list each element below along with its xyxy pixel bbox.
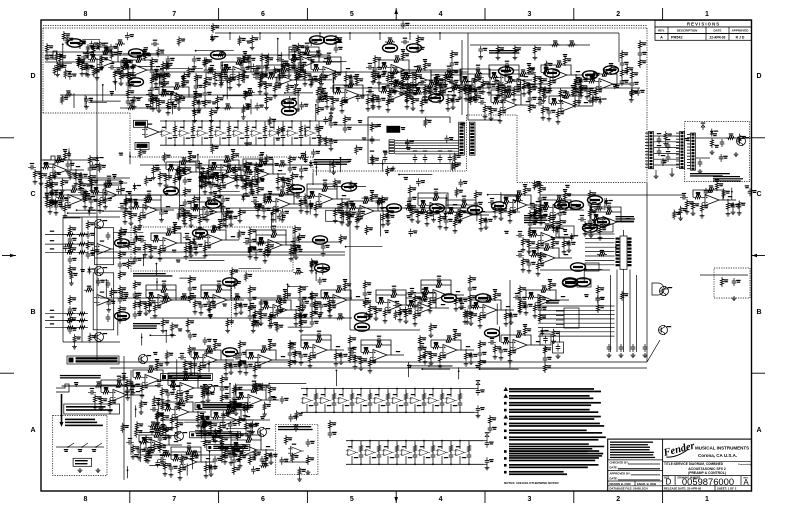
value label [390, 75, 394, 78]
wire [406, 304, 411, 306]
ground [731, 210, 736, 215]
value label [154, 77, 158, 80]
resistor R5 [245, 124, 248, 134]
resistor R119 [574, 76, 577, 86]
junction [727, 199, 729, 201]
wire [342, 198, 350, 200]
wire [423, 389, 425, 393]
resistor R232 [68, 265, 71, 275]
resistor R97 [420, 98, 423, 108]
resistor R63 [266, 76, 276, 79]
value label [730, 203, 734, 206]
ground [331, 106, 336, 111]
value label [310, 293, 314, 294]
value label [624, 52, 628, 55]
ground [74, 182, 79, 187]
wire [91, 180, 105, 185]
svg-text:3: 3 [527, 496, 531, 503]
resistor R315 [493, 291, 496, 301]
capacitor C168 [194, 242, 199, 250]
capacitor C187 [298, 295, 303, 303]
value label [374, 194, 378, 197]
resistor R70 [311, 68, 321, 71]
value label [125, 65, 129, 68]
resistor R277 [208, 303, 211, 313]
wire [459, 441, 461, 449]
zone tick top [662, 8, 664, 20]
wire [333, 408, 335, 413]
value label [327, 57, 331, 60]
net label [299, 200, 303, 201]
value label [302, 70, 306, 73]
op-amp U33 [342, 90, 362, 101]
wire [655, 170, 657, 174]
value label [198, 244, 202, 247]
ground [381, 223, 386, 228]
transistor Q2 [660, 286, 669, 296]
bundle wire [623, 270, 625, 353]
value label [99, 67, 103, 70]
value label [276, 138, 280, 139]
wire [610, 74, 617, 84]
ground [48, 210, 53, 215]
resistor R131 [638, 40, 641, 50]
value label [72, 297, 76, 300]
wire [279, 235, 286, 245]
refdes label [375, 394, 379, 395]
ground [485, 465, 490, 470]
svg-text:DRAWN B. ODR: DRAWN B. ODR [610, 482, 631, 486]
value label [624, 62, 628, 65]
resistor R208 [541, 206, 551, 209]
resistor R233 [86, 220, 89, 230]
svg-text:RELEASE DATE: 22-APR-93: RELEASE DATE: 22-APR-93 [664, 486, 702, 490]
capacitor C1 [173, 133, 178, 141]
ground [509, 320, 514, 325]
wire [526, 290, 539, 297]
resistor R196 [438, 214, 441, 224]
resistor R117 [563, 56, 566, 66]
svg-text:C: C [30, 191, 35, 198]
wire [151, 233, 164, 240]
value label [405, 53, 409, 56]
ground [438, 225, 443, 230]
resistor R94 [411, 96, 414, 106]
value label [277, 85, 281, 88]
wire [450, 404, 452, 412]
value label [248, 183, 252, 186]
capacitor C59 [150, 67, 155, 75]
svg-text:D: D [756, 73, 761, 80]
value label [526, 83, 530, 86]
wire [476, 214, 481, 216]
svg-text:8: 8 [83, 496, 87, 503]
refdes label [161, 292, 165, 293]
phones socket dashed box [53, 415, 107, 475]
value label [379, 298, 383, 301]
wire [351, 456, 353, 464]
value label [213, 184, 217, 187]
resistor R34 [700, 203, 703, 213]
capacitor C53 [731, 202, 736, 210]
resistor R231 [68, 245, 71, 255]
resistor R180 [348, 207, 358, 210]
value label [409, 96, 413, 99]
svg-text:Corona, CA U.S.A.: Corona, CA U.S.A. [698, 453, 737, 458]
wire [564, 65, 571, 75]
resistor R172 [256, 203, 259, 213]
zone tick top [218, 8, 220, 20]
capacitor C186 [299, 312, 304, 320]
junction [309, 120, 311, 122]
ground [138, 310, 143, 315]
value label [192, 295, 196, 298]
net label [504, 197, 508, 200]
value label [142, 215, 146, 218]
net label [414, 66, 418, 67]
resistor R17 [440, 392, 443, 402]
resistor R45 [161, 61, 164, 71]
resistor R192 [410, 207, 413, 217]
op-amp U15 [373, 397, 385, 404]
wire [489, 70, 502, 77]
refdes label [174, 89, 178, 90]
resistor R270 [138, 299, 141, 309]
op-amp U58 [265, 240, 285, 251]
value label [248, 162, 252, 165]
capacitor C73 [298, 67, 306, 72]
net label [492, 72, 496, 75]
value label [137, 258, 141, 261]
op-amp U46 [316, 194, 336, 205]
refdes label [100, 292, 104, 293]
wire [110, 47, 118, 52]
refdes label [348, 446, 352, 447]
wire [512, 70, 519, 80]
wire [342, 404, 344, 412]
value label [257, 311, 261, 314]
refdes label [668, 287, 672, 288]
ground [259, 321, 264, 326]
capacitor C184 [248, 313, 253, 321]
capacitor C65 [204, 67, 209, 75]
footswitch dashed box [685, 122, 750, 182]
value label [83, 174, 87, 177]
capacitor C18 [422, 400, 427, 408]
wire [378, 460, 380, 465]
ground [203, 254, 208, 259]
wire [369, 389, 371, 393]
refdes label [708, 192, 712, 193]
svg-text:DESCRIPTION: DESCRIPTION [677, 29, 698, 33]
svg-text:A: A [660, 36, 663, 40]
wire [241, 179, 246, 181]
op-amp U17 [409, 397, 421, 404]
resistor R29 [693, 196, 703, 199]
value label [472, 287, 476, 290]
capacitor C180 [188, 295, 196, 300]
wire [423, 408, 425, 413]
resistor R179 [340, 200, 343, 210]
capacitor C188 [298, 313, 303, 321]
wire [191, 202, 204, 209]
resistor R78 [346, 83, 356, 86]
resistor R312 [484, 298, 494, 301]
resistor R27 [710, 138, 713, 148]
value label [412, 187, 416, 190]
capacitor C120 [183, 199, 188, 207]
bus wire bottom [95, 361, 647, 363]
node balloon VR7 [429, 94, 444, 102]
svg-text:ACOUSTASONIC SFX 2: ACOUSTASONIC SFX 2 [688, 467, 726, 471]
net label [336, 87, 340, 90]
capacitor C43 [661, 158, 666, 166]
net label [173, 222, 177, 225]
refdes label [429, 394, 433, 395]
wire [387, 441, 389, 449]
capacitor C132 [444, 217, 449, 225]
value label [329, 96, 333, 99]
value label [122, 318, 126, 321]
value label [624, 80, 628, 83]
ground [451, 105, 456, 110]
resistor R20 [377, 444, 380, 454]
value label [287, 293, 291, 296]
resistor R182 [346, 212, 349, 222]
resistor R313 [469, 311, 472, 321]
value label [402, 88, 406, 89]
value label [104, 43, 108, 44]
wire [219, 137, 221, 146]
resistor R33 [715, 181, 718, 191]
net label [264, 302, 268, 305]
capacitor C159 [133, 256, 138, 264]
ground [344, 84, 349, 89]
wire [418, 193, 432, 198]
wire [334, 62, 341, 72]
junction [414, 463, 416, 465]
value label [135, 293, 139, 294]
bus wire mid [95, 257, 205, 259]
wire [369, 456, 371, 464]
resistor R314 [463, 309, 466, 319]
capacitor C22 [476, 405, 481, 413]
resistor R72 [303, 71, 306, 81]
junction [122, 61, 124, 63]
resistor R80 [325, 94, 328, 104]
note text [713, 176, 743, 182]
resistor R209 [554, 198, 564, 201]
jumper pad [389, 140, 394, 142]
ground [371, 80, 376, 85]
wire [154, 200, 161, 210]
value label [323, 184, 327, 187]
node balloon VR9 [545, 69, 560, 77]
wire [287, 194, 294, 204]
refdes label [100, 241, 104, 242]
value label [194, 205, 198, 208]
junction [318, 144, 320, 146]
ground [543, 346, 548, 351]
wire [468, 460, 470, 465]
resistor R160 [138, 213, 141, 223]
value label [412, 197, 416, 200]
value label [337, 204, 341, 205]
wire [174, 121, 176, 125]
value label [532, 97, 536, 100]
capacitor C8 [299, 133, 304, 141]
wire [231, 239, 239, 241]
wire [231, 299, 236, 301]
resistor R242 [133, 280, 136, 290]
ground [80, 72, 85, 77]
capacitor C49 [556, 344, 561, 352]
wire [174, 140, 176, 145]
ground [228, 86, 233, 91]
value label [90, 253, 94, 256]
ground [383, 319, 388, 324]
resistor R300 [389, 293, 399, 296]
wire [621, 221, 626, 223]
ground [208, 314, 213, 319]
resistor R187 [408, 185, 411, 195]
resistor R153 [83, 194, 86, 204]
value label [237, 57, 241, 60]
interboard wire [654, 141, 679, 143]
capacitor C66 [219, 74, 224, 82]
capacitor C124 [294, 194, 302, 199]
ground [428, 309, 433, 314]
capacitor C156 [118, 241, 123, 249]
value label [272, 315, 276, 318]
capacitor C30 [485, 440, 490, 448]
value label [364, 196, 368, 199]
resistor R283 [259, 311, 262, 321]
ground [556, 354, 561, 359]
release date row [663, 485, 752, 491]
value label [187, 189, 191, 192]
node balloon VR24 [313, 236, 328, 244]
board outline dashed [43, 112, 130, 114]
value label [408, 457, 412, 458]
wire [402, 60, 409, 70]
value label [245, 238, 249, 239]
resistor R149 [88, 155, 91, 165]
capacitor C15 [368, 400, 373, 408]
resistor R223 [256, 185, 259, 195]
resistor R67 [273, 83, 276, 93]
value label [269, 73, 273, 76]
ground [527, 90, 532, 95]
resistor R320 [526, 296, 536, 299]
connector J2 [469, 122, 475, 155]
value label [212, 225, 216, 228]
junction [360, 388, 362, 390]
EQ bottom rail wire [346, 463, 483, 465]
ground [496, 94, 501, 99]
board outline dashed [467, 114, 518, 116]
wire [468, 441, 470, 445]
wire [448, 94, 456, 96]
resistor R12 [350, 392, 353, 402]
value label [322, 77, 326, 80]
value label [292, 167, 296, 170]
value label [472, 305, 476, 308]
resistor R176 [320, 187, 330, 190]
resistor R239 [133, 245, 136, 255]
interconnect wire [395, 148, 459, 150]
ground [318, 86, 323, 91]
capacitor C177 [160, 283, 168, 288]
value label [444, 457, 448, 458]
refdes label [556, 67, 560, 68]
wire [161, 209, 166, 211]
junction [125, 194, 127, 196]
value label [472, 295, 476, 298]
wire [696, 157, 710, 159]
interconnect bottom wire [368, 163, 455, 165]
resistor R46 [161, 79, 164, 89]
wire [291, 244, 299, 246]
value label [192, 277, 196, 280]
net label [495, 80, 499, 81]
resistor R266 [293, 243, 296, 253]
value label [607, 207, 611, 210]
resistor R24 [449, 444, 452, 454]
ground [211, 36, 216, 41]
capacitor C101 [630, 80, 635, 88]
junction [235, 299, 237, 301]
value label [424, 100, 428, 103]
value label [217, 195, 221, 198]
interboard wire [654, 147, 679, 149]
resistor R134 [343, 115, 346, 125]
svg-text:4: 4 [439, 11, 443, 18]
junction [450, 388, 452, 390]
capacitor C94 [528, 70, 536, 75]
wire [506, 309, 514, 311]
refdes label [306, 127, 310, 128]
value label [480, 407, 484, 410]
value label [577, 82, 581, 85]
junction [300, 144, 302, 146]
capacitor C197 [408, 290, 416, 295]
capacitor C181 [215, 283, 223, 288]
resistor R82 [340, 98, 343, 108]
op-amp U63 [385, 300, 405, 311]
capacitor C142 [588, 218, 593, 226]
value label [557, 195, 561, 198]
svg-text:PR542: PR542 [671, 36, 683, 40]
title row [663, 461, 752, 475]
value label [367, 292, 371, 295]
refdes label [393, 394, 397, 395]
value label [267, 250, 271, 253]
note label box [135, 142, 149, 149]
value label [162, 248, 166, 251]
wire [414, 460, 416, 465]
capacitor C145 [244, 170, 249, 178]
net label [506, 306, 510, 307]
ground [319, 311, 324, 316]
wire [414, 69, 422, 71]
value label [480, 389, 484, 392]
value label [190, 293, 194, 294]
value label [603, 69, 607, 72]
value label [530, 203, 534, 204]
note 4 [504, 409, 598, 413]
capacitor C25 [395, 452, 400, 460]
